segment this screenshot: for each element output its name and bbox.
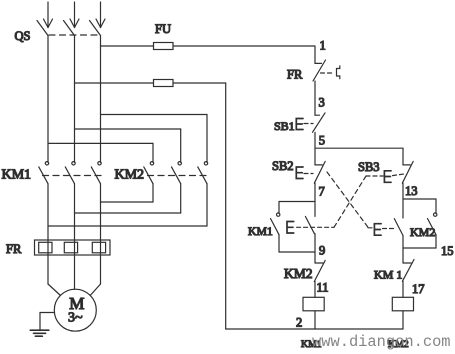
SB2 linkage dashes <box>304 173 313 175</box>
FR heater element 2 <box>64 242 77 253</box>
KM1 main dashed link <box>43 175 103 177</box>
switch QS pole 2 blade <box>64 21 75 36</box>
wire phase C vertical <box>100 36 102 163</box>
contactor KM2 main pole 3 <box>198 162 208 184</box>
wire KM2 pole3 feed <box>101 115 208 163</box>
svg-text:9: 9 <box>319 244 325 258</box>
FR heater element 3 <box>92 242 105 253</box>
svg-text:1: 1 <box>320 39 326 53</box>
relay contact FR (NC) <box>313 60 326 81</box>
contactor KM1 interlock contact (NC) <box>402 260 414 282</box>
SB1 actuator E <box>296 119 303 130</box>
wire node 17 <box>402 281 404 297</box>
pushbutton SB3 break contact in KM1 branch <box>305 216 314 233</box>
wire KM2 pole2 output <box>75 184 181 213</box>
svg-text:SB1: SB1 <box>274 119 295 133</box>
svg-text:www.diangon.com: www.diangon.com <box>312 333 451 351</box>
wire node 13 <box>402 183 404 218</box>
wire KM2 pole1 output crossover <box>101 184 154 202</box>
svg-text:15: 15 <box>441 244 454 258</box>
SB3 interlock dashes horizontal left <box>297 226 334 228</box>
svg-text:7: 7 <box>319 185 325 199</box>
SB1 linkage dashes <box>304 123 313 125</box>
pushbutton SB3 start contact <box>402 161 413 183</box>
SB2 actuator E <box>296 167 303 179</box>
wire motor entry left diagonal <box>48 284 61 296</box>
svg-text:2: 2 <box>296 316 302 330</box>
SB3 interlock dashes horizontal right <box>366 175 383 177</box>
supply line L3 arrow <box>96 2 105 28</box>
contactor KM1 main pole 3 <box>91 162 101 184</box>
ground wire from motor <box>40 313 55 330</box>
supply line L1 arrow <box>44 2 53 28</box>
svg-text:13: 13 <box>405 184 418 198</box>
svg-text:3: 3 <box>319 96 325 110</box>
wire FU2 to bottom rail <box>173 83 226 329</box>
wire coil KM2 to rail <box>402 311 404 329</box>
SB3 linkage dashes <box>393 174 406 176</box>
contactor KM1 main pole 2 <box>65 162 75 184</box>
contactor KM2 main pole 1 <box>144 162 154 184</box>
switch QS pole 3 blade <box>90 21 101 36</box>
wire motor lead A <box>47 184 49 284</box>
SB2 interlock dashed diagonal <box>327 172 368 227</box>
wire control line 1 from phase C <box>101 45 154 47</box>
pushbutton SB2 start contact <box>314 161 325 183</box>
wire coil KM1 to rail <box>314 311 316 329</box>
QS interlock dashed link <box>49 34 101 36</box>
wire node 7 <box>314 183 316 216</box>
wire motor lead C <box>100 184 102 284</box>
wire node 3 <box>314 81 316 115</box>
contactor KM1 main pole 1 <box>39 162 49 184</box>
wire KM2 pole2 feed <box>75 129 181 162</box>
wire motor entry right diagonal <box>90 284 100 296</box>
svg-text:KM1: KM1 <box>2 168 32 183</box>
contactor KM1 aux contact (self hold) <box>271 202 316 253</box>
wire FU1 to node 1 <box>173 45 315 47</box>
pushbutton SB2 break contact in KM2 branch <box>394 219 403 236</box>
svg-text:3~: 3~ <box>68 310 83 325</box>
wire KM2 pole3 output crossover <box>48 184 207 226</box>
wire phase A vertical <box>47 36 49 163</box>
svg-text:FR: FR <box>6 242 22 256</box>
bottom rail wire node 2 <box>226 328 403 330</box>
wire node 5 to SB3 vertical <box>402 148 404 165</box>
wire node 7 branch to KM1 aux <box>279 201 315 203</box>
wire node 9 <box>314 234 316 263</box>
svg-text:KM 1: KM 1 <box>374 268 402 282</box>
SB3 break actuator E <box>287 222 294 234</box>
svg-text:KM1: KM1 <box>248 225 273 238</box>
SB2 interlock dashes E to blade <box>383 228 394 230</box>
fuse FU2 <box>154 80 174 87</box>
svg-text:QS: QS <box>15 29 31 43</box>
FR heater element 1 <box>39 242 52 253</box>
coil KM1 <box>303 297 324 311</box>
pushbutton SB1 (NC) <box>313 113 326 132</box>
wire KM2 pole1 feed <box>48 143 153 162</box>
wire node 11 <box>314 282 316 298</box>
motor M circle <box>54 289 96 331</box>
FR trip linkage dashes <box>321 72 335 74</box>
thermal relay FR box <box>35 240 111 255</box>
SB3 actuator E <box>384 171 391 183</box>
contactor KM2 aux contact (self hold) <box>403 199 437 248</box>
ground symbol <box>30 330 49 336</box>
wire node 5 branch to SB3 <box>315 147 403 149</box>
svg-text:KM2: KM2 <box>410 225 435 239</box>
svg-text:FR: FR <box>287 68 303 82</box>
contactor KM2 interlock contact (NC) <box>314 260 325 281</box>
SB3 interlock dashed diagonal <box>334 176 366 227</box>
wire control line 2 from phase B <box>75 82 154 84</box>
wire motor lead B <box>74 184 76 290</box>
svg-text:11: 11 <box>317 281 329 295</box>
svg-text:KM2: KM2 <box>284 266 313 281</box>
FR release symbol <box>337 66 340 79</box>
switch QS pole 1 blade <box>37 21 48 36</box>
wire node 1 <box>314 46 316 63</box>
coil KM2 <box>392 297 413 311</box>
SB2 interlock dashes left of E <box>368 227 373 229</box>
wire phase B vertical <box>74 36 76 163</box>
supply line L2 arrow <box>70 2 79 28</box>
svg-text:KM2: KM2 <box>115 168 145 183</box>
svg-text:17: 17 <box>412 282 425 296</box>
contactor KM2 main pole 2 <box>172 162 182 184</box>
SB2 break actuator E <box>374 224 381 236</box>
svg-text:5: 5 <box>319 134 325 148</box>
svg-text:SB2: SB2 <box>272 159 294 173</box>
wire node 13 branch to KM2 aux <box>403 198 436 200</box>
KM2 main dashed link <box>148 175 209 177</box>
fuse FU1 <box>154 43 174 50</box>
wire node 5 <box>314 132 316 165</box>
svg-text:FU: FU <box>155 22 171 36</box>
svg-text:SB3: SB3 <box>358 160 380 174</box>
wire node 15 <box>402 236 404 264</box>
